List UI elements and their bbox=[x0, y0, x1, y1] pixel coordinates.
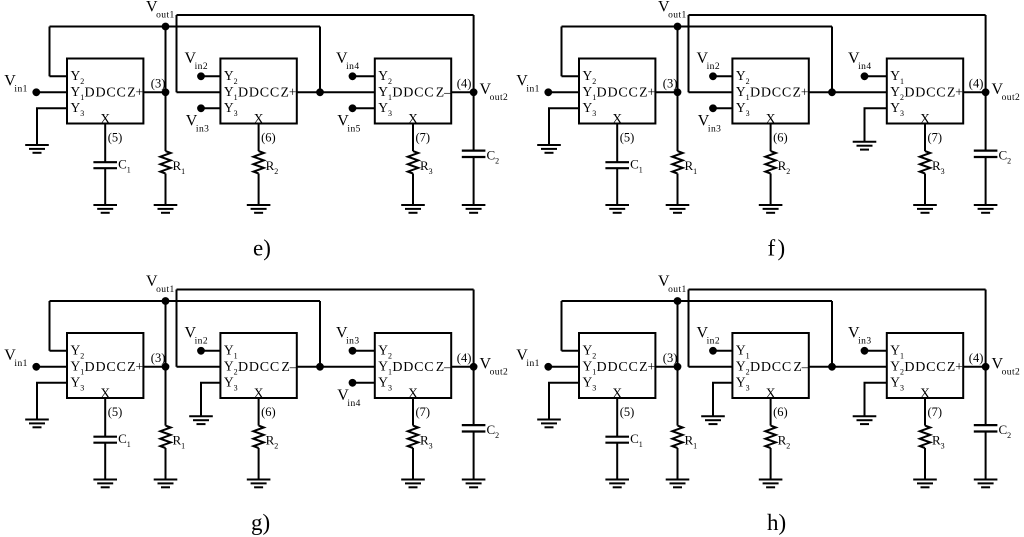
svg-text:(3): (3) bbox=[151, 351, 166, 365]
svg-text:(5): (5) bbox=[108, 131, 123, 145]
svg-text:DDCC: DDCC bbox=[597, 360, 639, 375]
svg-text:Vin3: Vin3 bbox=[186, 113, 210, 135]
svg-text:Vin1: Vin1 bbox=[516, 73, 540, 95]
capacitor C2 (f) bbox=[974, 151, 998, 157]
svg-text:DDCC: DDCC bbox=[597, 85, 639, 100]
ground Y3 DDCC3 (f) bbox=[853, 142, 877, 150]
svg-text:Z+: Z+ bbox=[127, 359, 143, 374]
junction between DDCC2 and DDCC3 (f) bbox=[828, 88, 836, 96]
ground under C2 (g) bbox=[462, 480, 486, 488]
svg-text:Vin1: Vin1 bbox=[516, 347, 540, 369]
svg-text:(7): (7) bbox=[416, 131, 431, 145]
ground under R1 (f) bbox=[666, 205, 690, 213]
wire feedback stub into DDCC2 (f) bbox=[689, 91, 733, 93]
junction between DDCC2 and DDCC3 (e) bbox=[316, 88, 324, 96]
wire riser Vout1 to node between DDCC2 and DDCC3 (g) bbox=[319, 301, 321, 367]
wire X DDCC1 to C1 node 5 (h) bbox=[616, 398, 618, 437]
wire DDCC2 Z output to DDCC3 input (f) bbox=[809, 91, 887, 93]
svg-text:Y3: Y3 bbox=[890, 100, 904, 118]
svg-text:DDCC: DDCC bbox=[85, 85, 127, 100]
wire Y2 stub DDCC1 (e) bbox=[50, 75, 68, 77]
wire outer feedback left riser (e) bbox=[176, 15, 178, 92]
wire feedback stub into DDCC2 (h) bbox=[689, 366, 733, 368]
op-amp DDCC2 box (e) bbox=[220, 59, 296, 124]
svg-text:Vin3: Vin3 bbox=[698, 113, 722, 135]
input terminal Vin2 (h) bbox=[709, 347, 717, 355]
ground under C2 (f) bbox=[974, 205, 998, 213]
node 3 junction (h) bbox=[674, 363, 682, 371]
wire R2 to ground (e) bbox=[258, 174, 260, 206]
svg-text:R2: R2 bbox=[778, 158, 791, 176]
svg-text:(3): (3) bbox=[663, 77, 678, 91]
svg-text:Y3: Y3 bbox=[378, 100, 392, 118]
svg-text:(6): (6) bbox=[261, 405, 276, 419]
wire Y3 DDCC3 to ground (h) bbox=[865, 383, 887, 417]
wire Vin4 stub (f) bbox=[865, 75, 887, 77]
wire riser Vout1 to node between DDCC2 and DDCC3 (h) bbox=[831, 301, 833, 367]
svg-text:X: X bbox=[100, 385, 110, 400]
svg-text:Vin4: Vin4 bbox=[848, 50, 872, 72]
wire X DDCC1 to C1 node 5 (e) bbox=[104, 124, 106, 163]
op-amp DDCC3 box (g) bbox=[375, 333, 451, 398]
svg-text:C1: C1 bbox=[630, 431, 643, 449]
svg-text:Y3: Y3 bbox=[71, 374, 85, 392]
wire X DDCC2 to R2 node 6 (g) bbox=[258, 398, 260, 426]
svg-text:R2: R2 bbox=[266, 433, 279, 451]
wire Y3 DDCC2 to ground (h) bbox=[713, 383, 732, 417]
wire Y2 stub DDCC1 (f) bbox=[562, 75, 580, 77]
op-amp DDCC2 box (f) bbox=[732, 59, 808, 124]
wire Vin2 stub (e) bbox=[201, 75, 220, 77]
wire Vin5 stub (e) bbox=[353, 107, 375, 109]
capacitor C2 (e) bbox=[462, 151, 486, 157]
node 3 junction (g) bbox=[162, 363, 170, 371]
svg-text:Y3: Y3 bbox=[736, 100, 750, 118]
wire Y2 feedback top segment (h) bbox=[562, 300, 833, 302]
svg-text:X: X bbox=[920, 111, 930, 126]
svg-text:Y3: Y3 bbox=[224, 374, 238, 392]
ground Y3 DDCC1 (h) bbox=[537, 420, 561, 428]
svg-text:R2: R2 bbox=[266, 158, 279, 176]
svg-text:C2: C2 bbox=[487, 422, 500, 440]
ground under R1 (h) bbox=[666, 480, 690, 488]
wire C2 to ground (e) bbox=[473, 157, 475, 205]
svg-text:(6): (6) bbox=[261, 131, 276, 145]
wire C1 to ground (h) bbox=[616, 443, 618, 480]
svg-text:R2: R2 bbox=[778, 433, 791, 451]
wire R2 to ground (h) bbox=[770, 448, 772, 480]
svg-text:Vin3: Vin3 bbox=[848, 325, 872, 347]
svg-text:Z+: Z+ bbox=[639, 84, 655, 99]
svg-text:DDCC: DDCC bbox=[904, 85, 946, 100]
svg-text:C1: C1 bbox=[118, 157, 131, 175]
wire X DDCC2 to R2 node 6 (f) bbox=[770, 124, 772, 152]
svg-text:Y3: Y3 bbox=[583, 374, 597, 392]
wire Vin4 stub (g) bbox=[353, 382, 375, 384]
wire output rail (f) bbox=[985, 15, 987, 151]
capacitor C1 (e) bbox=[93, 162, 117, 168]
capacitor C1 (f) bbox=[605, 162, 629, 168]
wire Y2 feedback top segment (g) bbox=[50, 300, 321, 302]
op-amp DDCC3 box (f) bbox=[887, 59, 963, 124]
wire Y3 DDCC3 to ground (f) bbox=[865, 108, 887, 142]
ground under C2 (e) bbox=[462, 205, 486, 213]
svg-text:R1: R1 bbox=[173, 158, 186, 176]
resistor R1 (h) bbox=[672, 426, 682, 448]
wire Z+ stub DDCC1 node 3 (g) bbox=[143, 366, 165, 368]
svg-text:Vout2: Vout2 bbox=[480, 356, 509, 378]
svg-text:Vin2: Vin2 bbox=[697, 325, 721, 347]
wire R1 to ground (f) bbox=[677, 174, 679, 206]
svg-text:Vin1: Vin1 bbox=[4, 73, 28, 95]
svg-text:f): f) bbox=[768, 236, 786, 261]
op-amp DDCC2 box (h) bbox=[732, 333, 808, 398]
wire Y3 DDCC1 to ground (f) bbox=[549, 108, 579, 145]
ground under C1 (f) bbox=[605, 205, 629, 213]
svg-text:R1: R1 bbox=[685, 433, 698, 451]
svg-text:Vin3: Vin3 bbox=[336, 325, 360, 347]
resistor R2 (h) bbox=[765, 426, 775, 448]
ground under R2 (e) bbox=[247, 205, 271, 213]
svg-text:C2: C2 bbox=[999, 148, 1012, 166]
svg-text:R3: R3 bbox=[932, 158, 945, 176]
svg-text:DDCC: DDCC bbox=[238, 85, 280, 100]
svg-text:(7): (7) bbox=[416, 405, 431, 419]
wire R1 to ground (e) bbox=[165, 174, 167, 206]
wire Z+ stub DDCC1 node 3 (h) bbox=[655, 366, 677, 368]
ground under R2 (h) bbox=[759, 480, 783, 488]
resistor R3 (e) bbox=[408, 151, 418, 173]
input terminal Vin4 (e) bbox=[349, 72, 357, 80]
ground under R2 (f) bbox=[759, 205, 783, 213]
wire output rail (g) bbox=[473, 290, 475, 426]
resistor R2 (e) bbox=[253, 151, 263, 173]
capacitor C1 (h) bbox=[605, 437, 629, 443]
svg-text:Vin2: Vin2 bbox=[185, 50, 209, 72]
wire outer feedback left riser (f) bbox=[688, 15, 690, 92]
wire R3 to ground (f) bbox=[924, 174, 926, 206]
wire Vout1 vertical to R1 (h) bbox=[677, 301, 679, 426]
input terminal Vin1 (e) bbox=[32, 88, 40, 96]
svg-text:Z–: Z– bbox=[794, 359, 809, 374]
op-amp DDCC3 box (h) bbox=[887, 333, 963, 398]
svg-text:DDCC: DDCC bbox=[392, 85, 434, 100]
wire outer feedback top segment (f) bbox=[689, 14, 986, 16]
wire X DDCC3 to R3 node 7 (e) bbox=[412, 124, 414, 152]
svg-text:(5): (5) bbox=[620, 131, 635, 145]
wire R2 to ground (f) bbox=[770, 174, 772, 206]
svg-text:X: X bbox=[254, 111, 264, 126]
svg-text:(4): (4) bbox=[457, 351, 472, 365]
svg-text:X: X bbox=[920, 385, 930, 400]
resistor R3 (g) bbox=[408, 426, 418, 448]
svg-text:Y3: Y3 bbox=[890, 374, 904, 392]
resistor R1 (g) bbox=[160, 426, 170, 448]
svg-text:Y3: Y3 bbox=[736, 374, 750, 392]
input terminal Vin2 (f) bbox=[709, 72, 717, 80]
wire C1 to ground (f) bbox=[616, 168, 618, 205]
wire Vin4 stub (e) bbox=[353, 75, 375, 77]
svg-text:(6): (6) bbox=[773, 131, 788, 145]
op-amp DDCC2 box (g) bbox=[220, 333, 296, 398]
input terminal Vin3 (e) bbox=[197, 104, 205, 112]
wire Y3 DDCC2 to ground (g) bbox=[201, 383, 220, 417]
svg-text:(3): (3) bbox=[663, 351, 678, 365]
capacitor C2 (g) bbox=[462, 425, 486, 431]
op-amp DDCC1 box (g) bbox=[67, 333, 143, 398]
ground under C1 (e) bbox=[93, 205, 117, 213]
wire Y2 stub DDCC1 (g) bbox=[50, 350, 68, 352]
resistor R1 (e) bbox=[160, 151, 170, 173]
svg-text:Vout2: Vout2 bbox=[992, 81, 1021, 103]
node 4 Vout2 (g) bbox=[470, 363, 478, 371]
wire Y3 DDCC1 to ground (h) bbox=[549, 383, 579, 420]
wire Vout1 vertical to R1 (f) bbox=[677, 27, 679, 152]
svg-text:X: X bbox=[408, 385, 418, 400]
wire X DDCC2 to R2 node 6 (e) bbox=[258, 124, 260, 152]
wire outer feedback top segment (h) bbox=[689, 289, 986, 291]
svg-text:R1: R1 bbox=[685, 158, 698, 176]
junction between DDCC2 and DDCC3 (h) bbox=[828, 363, 836, 371]
node 4 Vout2 (h) bbox=[982, 363, 990, 371]
input terminal Vin4 (g) bbox=[349, 379, 357, 387]
svg-text:DDCC: DDCC bbox=[750, 85, 792, 100]
svg-text:Z+: Z+ bbox=[281, 84, 297, 99]
ground Y3 DDCC1 (g) bbox=[25, 420, 49, 428]
svg-text:X: X bbox=[408, 111, 418, 126]
input terminal Vin5 (e) bbox=[349, 104, 357, 112]
op-amp DDCC3 box (e) bbox=[375, 59, 451, 124]
svg-text:Vin4: Vin4 bbox=[336, 50, 360, 72]
svg-text:X: X bbox=[254, 385, 264, 400]
svg-text:C1: C1 bbox=[630, 157, 643, 175]
wire Vin2 stub (h) bbox=[713, 350, 732, 352]
svg-text:R3: R3 bbox=[932, 433, 945, 451]
svg-text:(4): (4) bbox=[969, 351, 984, 365]
svg-text:h): h) bbox=[767, 510, 786, 535]
wire R3 to ground (g) bbox=[412, 448, 414, 480]
ground under C2 (h) bbox=[974, 480, 998, 488]
wire feedback stub into DDCC2 (g) bbox=[177, 366, 221, 368]
wire Z stub DDCC3 node 4 (f) bbox=[963, 91, 985, 93]
wire X DDCC1 to C1 node 5 (f) bbox=[616, 124, 618, 163]
svg-text:Vout1: Vout1 bbox=[146, 0, 175, 21]
resistor R3 (f) bbox=[920, 151, 930, 173]
wire Y2 feedback riser (f) bbox=[561, 27, 563, 77]
input terminal Vin2 (e) bbox=[197, 72, 205, 80]
wire feedback stub into DDCC2 (e) bbox=[177, 91, 221, 93]
input terminal Vin1 (g) bbox=[32, 363, 40, 371]
input terminal Vin3 (g) bbox=[349, 347, 357, 355]
ground under R3 (g) bbox=[401, 480, 425, 488]
svg-text:Vin4: Vin4 bbox=[337, 387, 361, 409]
ground under R1 (e) bbox=[154, 205, 178, 213]
wire DDCC2 Z output to DDCC3 input (g) bbox=[297, 366, 375, 368]
ground under R3 (e) bbox=[401, 205, 425, 213]
ground under R1 (g) bbox=[154, 480, 178, 488]
svg-text:DDCC: DDCC bbox=[85, 360, 127, 375]
svg-text:X: X bbox=[612, 385, 622, 400]
node Vout1 (e) bbox=[162, 23, 170, 31]
svg-text:DDCC: DDCC bbox=[750, 360, 792, 375]
wire Vin3 stub (f) bbox=[713, 107, 732, 109]
svg-text:(7): (7) bbox=[928, 405, 943, 419]
svg-text:e): e) bbox=[253, 236, 271, 261]
ground Y3 DDCC2 (g) bbox=[189, 416, 213, 424]
wire Vin3 stub (g) bbox=[353, 350, 375, 352]
svg-text:Vout1: Vout1 bbox=[658, 0, 687, 21]
wire Z stub DDCC3 node 4 (e) bbox=[451, 91, 473, 93]
ground Y3 DDCC1 (f) bbox=[537, 145, 561, 153]
svg-text:Y3: Y3 bbox=[378, 374, 392, 392]
svg-text:Vout2: Vout2 bbox=[992, 356, 1021, 378]
svg-text:C2: C2 bbox=[487, 148, 500, 166]
node Vout1 (f) bbox=[674, 23, 682, 31]
input terminal Vin2 (g) bbox=[197, 347, 205, 355]
svg-text:Y3: Y3 bbox=[583, 100, 597, 118]
svg-text:(7): (7) bbox=[928, 131, 943, 145]
svg-text:Z+: Z+ bbox=[127, 84, 143, 99]
wire C2 to ground (g) bbox=[473, 432, 475, 480]
svg-text:C1: C1 bbox=[118, 431, 131, 449]
wire Y2 feedback riser (e) bbox=[49, 27, 51, 77]
svg-text:(3): (3) bbox=[151, 77, 166, 91]
wire Y2 feedback top segment (e) bbox=[50, 26, 321, 28]
wire R1 to ground (h) bbox=[677, 448, 679, 480]
input terminal Vin3 (h) bbox=[861, 347, 869, 355]
svg-text:(5): (5) bbox=[108, 405, 123, 419]
svg-text:Z–: Z– bbox=[436, 84, 451, 99]
wire Vin1 to Y1 DDCC1 (g) bbox=[36, 366, 67, 368]
svg-text:X: X bbox=[612, 111, 622, 126]
wire Vin3 stub (h) bbox=[865, 350, 887, 352]
wire Vin1 to Y1 DDCC1 (h) bbox=[548, 366, 579, 368]
wire Z+ stub DDCC1 node 3 (e) bbox=[143, 91, 165, 93]
capacitor C2 (h) bbox=[974, 425, 998, 431]
wire outer feedback left riser (g) bbox=[176, 290, 178, 367]
node Vout1 (h) bbox=[674, 297, 682, 305]
resistor R2 (f) bbox=[765, 151, 775, 173]
svg-text:(4): (4) bbox=[969, 77, 984, 91]
svg-text:Vout1: Vout1 bbox=[658, 273, 687, 295]
wire Y3 DDCC1 to ground (g) bbox=[37, 383, 67, 420]
wire Vin1 to Y1 DDCC1 (e) bbox=[36, 91, 67, 93]
svg-text:Y3: Y3 bbox=[71, 100, 85, 118]
wire R1 to ground (g) bbox=[165, 448, 167, 480]
wire Vin3 stub (e) bbox=[201, 107, 220, 109]
svg-text:R3: R3 bbox=[420, 158, 433, 176]
wire Vin2 stub (g) bbox=[201, 350, 220, 352]
wire DDCC2 Z output to DDCC3 input (e) bbox=[297, 91, 375, 93]
resistor R2 (g) bbox=[253, 426, 263, 448]
wire outer feedback top segment (e) bbox=[177, 14, 474, 16]
svg-text:g): g) bbox=[251, 510, 270, 535]
svg-text:Z–: Z– bbox=[282, 359, 297, 374]
wire C1 to ground (e) bbox=[104, 168, 106, 205]
svg-text:X: X bbox=[766, 111, 776, 126]
wire R3 to ground (e) bbox=[412, 174, 414, 206]
svg-text:(6): (6) bbox=[773, 405, 788, 419]
svg-text:Z+: Z+ bbox=[947, 84, 963, 99]
input terminal Vin4 (f) bbox=[861, 72, 869, 80]
wire X DDCC2 to R2 node 6 (h) bbox=[770, 398, 772, 426]
svg-text:R3: R3 bbox=[420, 433, 433, 451]
svg-text:(4): (4) bbox=[457, 77, 472, 91]
wire riser Vout1 to node between DDCC2 and DDCC3 (f) bbox=[831, 27, 833, 93]
svg-text:X: X bbox=[766, 385, 776, 400]
wire C2 to ground (h) bbox=[985, 432, 987, 480]
op-amp DDCC1 box (h) bbox=[579, 333, 655, 398]
node 3 junction (f) bbox=[674, 88, 682, 96]
svg-text:Z+: Z+ bbox=[639, 359, 655, 374]
svg-text:C2: C2 bbox=[999, 422, 1012, 440]
wire Y2 stub DDCC1 (h) bbox=[562, 350, 580, 352]
svg-text:Vin5: Vin5 bbox=[337, 113, 361, 135]
ground Y3 DDCC2 (h) bbox=[701, 416, 725, 424]
wire X DDCC3 to R3 node 7 (h) bbox=[924, 398, 926, 426]
svg-text:Vin2: Vin2 bbox=[185, 325, 209, 347]
ground Y3 DDCC1 (e) bbox=[25, 145, 49, 153]
wire C1 to ground (g) bbox=[104, 443, 106, 480]
wire Vout1 vertical to R1 (g) bbox=[165, 301, 167, 426]
wire outer feedback left riser (h) bbox=[688, 290, 690, 367]
svg-text:Y3: Y3 bbox=[224, 100, 238, 118]
wire X DDCC3 to R3 node 7 (f) bbox=[924, 124, 926, 152]
svg-text:Z–: Z– bbox=[436, 359, 451, 374]
input terminal Vin3 (f) bbox=[709, 104, 717, 112]
wire C2 to ground (f) bbox=[985, 157, 987, 205]
capacitor C1 (g) bbox=[93, 437, 117, 443]
node Vout1 (g) bbox=[162, 297, 170, 305]
svg-text:X: X bbox=[100, 111, 110, 126]
wire Vin1 to Y1 DDCC1 (f) bbox=[548, 91, 579, 93]
resistor R3 (h) bbox=[920, 426, 930, 448]
svg-text:(5): (5) bbox=[620, 405, 635, 419]
wire R3 to ground (h) bbox=[924, 448, 926, 480]
wire Z stub DDCC3 node 4 (g) bbox=[451, 366, 473, 368]
wire Z+ stub DDCC1 node 3 (f) bbox=[655, 91, 677, 93]
op-amp DDCC1 box (e) bbox=[67, 59, 143, 124]
wire output rail (e) bbox=[473, 15, 475, 151]
input terminal Vin1 (h) bbox=[544, 363, 552, 371]
svg-text:Vout2: Vout2 bbox=[480, 81, 509, 103]
wire Z stub DDCC3 node 4 (h) bbox=[963, 366, 985, 368]
wire Y2 feedback riser (g) bbox=[49, 301, 51, 351]
input terminal Vin1 (f) bbox=[544, 88, 552, 96]
ground under R2 (g) bbox=[247, 480, 271, 488]
ground under R3 (f) bbox=[913, 205, 937, 213]
wire X DDCC1 to C1 node 5 (g) bbox=[104, 398, 106, 437]
ground under C1 (g) bbox=[93, 480, 117, 488]
node 4 Vout2 (e) bbox=[470, 88, 478, 96]
svg-text:DDCC: DDCC bbox=[904, 360, 946, 375]
wire output rail (h) bbox=[985, 290, 987, 426]
wire Y2 feedback top segment (f) bbox=[562, 26, 833, 28]
wire R2 to ground (g) bbox=[258, 448, 260, 480]
node 3 junction (e) bbox=[162, 88, 170, 96]
svg-text:Z+: Z+ bbox=[793, 84, 809, 99]
svg-text:DDCC: DDCC bbox=[238, 360, 280, 375]
ground Y3 DDCC3 (h) bbox=[853, 416, 877, 424]
op-amp DDCC1 box (f) bbox=[579, 59, 655, 124]
svg-text:Z+: Z+ bbox=[947, 359, 963, 374]
wire Y3 DDCC1 to ground (e) bbox=[37, 108, 67, 145]
wire outer feedback top segment (g) bbox=[177, 289, 474, 291]
wire riser Vout1 to node between DDCC2 and DDCC3 (e) bbox=[319, 27, 321, 93]
svg-text:Vout1: Vout1 bbox=[146, 273, 175, 295]
wire Vin2 stub (f) bbox=[713, 75, 732, 77]
svg-text:Vin2: Vin2 bbox=[697, 50, 721, 72]
